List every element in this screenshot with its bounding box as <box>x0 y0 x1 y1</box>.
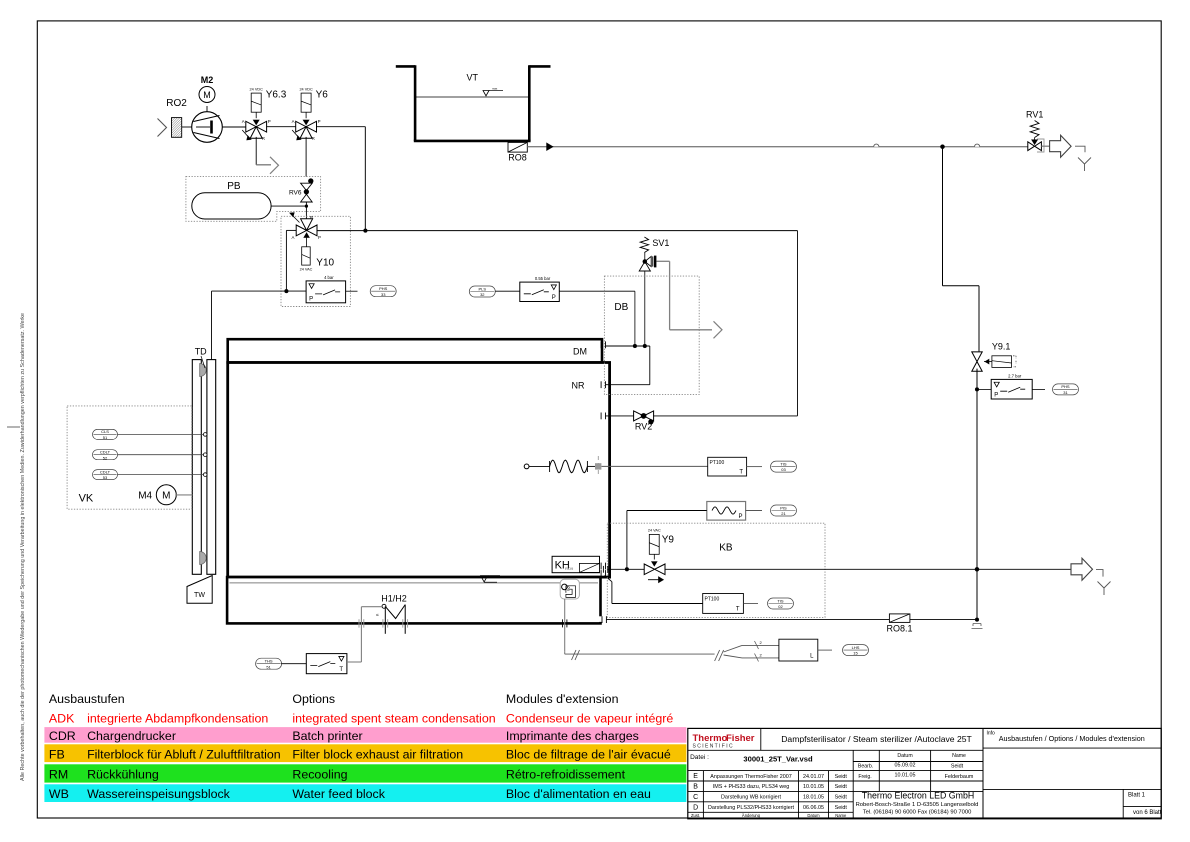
svg-text:P: P <box>738 514 742 520</box>
svg-text:DM: DM <box>573 347 587 357</box>
svg-text:TD: TD <box>195 347 207 357</box>
svg-text:VT: VT <box>466 73 478 83</box>
svg-text:51: 51 <box>103 435 108 440</box>
svg-text:Tel. (06184) 90 6000 Fax: Tel. (06184) 90 6000 Fax (06184) 90 7000 <box>863 809 972 815</box>
svg-text:Chargendrucker: Chargendrucker <box>87 729 176 743</box>
svg-text:integrierte Abdampfkondensatio: integrierte Abdampfkondensation <box>87 711 268 725</box>
svg-text:05.09.02: 05.09.02 <box>895 763 916 769</box>
svg-text:10.01.05: 10.01.05 <box>895 773 916 779</box>
svg-text:30001_25T_Var.vsd: 30001_25T_Var.vsd <box>743 755 813 764</box>
svg-text:06.06.05: 06.06.05 <box>803 805 824 811</box>
svg-text:CLS: CLS <box>101 429 109 434</box>
svg-text:Y9: Y9 <box>662 535 675 546</box>
svg-text:Y9.1: Y9.1 <box>992 342 1011 352</box>
svg-text:S C I E N T I F I C: S C I E N T I F I C <box>693 744 733 750</box>
svg-text:R: R <box>310 215 313 220</box>
svg-text:PT100: PT100 <box>710 460 725 466</box>
svg-text:T: T <box>739 470 743 476</box>
svg-text:Batch printer: Batch printer <box>292 729 362 743</box>
svg-text:RV6: RV6 <box>289 190 302 197</box>
svg-text:Filter block exhaust air filtr: Filter block exhaust air filtration <box>292 747 463 761</box>
svg-text:CDR: CDR <box>49 729 76 743</box>
svg-text:4 bar: 4 bar <box>324 275 334 280</box>
svg-text:IMS + PHS33 dazu, PLS34 weg: IMS + PHS33 dazu, PLS34 weg <box>713 784 790 790</box>
svg-text:VK: VK <box>79 493 94 505</box>
svg-text:P: P <box>268 119 271 124</box>
svg-text:D: D <box>693 804 698 811</box>
svg-text:24 VDC: 24 VDC <box>250 88 264 92</box>
svg-text:Ausbaustufen: Ausbaustufen <box>49 692 125 706</box>
svg-text:Seidt: Seidt <box>835 795 848 801</box>
svg-text:M: M <box>203 90 211 100</box>
svg-text:33: 33 <box>381 292 386 297</box>
svg-text:RO8: RO8 <box>508 153 527 163</box>
svg-text:T: T <box>736 607 740 613</box>
svg-text:Seidt: Seidt <box>835 774 848 780</box>
svg-text:PB: PB <box>227 181 241 192</box>
svg-text:C: C <box>693 794 698 801</box>
svg-text:Darstellung PLS32/PHS33 korri: Darstellung PLS32/PHS33 korrigiert <box>708 805 794 811</box>
svg-text:Datum: Datum <box>807 813 820 818</box>
svg-text:15: 15 <box>853 651 858 656</box>
svg-text:A: A <box>242 119 245 124</box>
svg-text:52: 52 <box>103 455 108 460</box>
svg-text:Imprimante des charges: Imprimante des charges <box>506 729 639 743</box>
svg-text:10.01.05: 10.01.05 <box>803 784 824 790</box>
svg-text:THS: THS <box>265 659 273 664</box>
svg-text:Seidt: Seidt <box>835 805 848 811</box>
svg-text:M: M <box>162 491 170 502</box>
svg-text:21: 21 <box>781 511 786 516</box>
svg-text:E: E <box>693 773 698 780</box>
svg-text:H1/H2: H1/H2 <box>381 594 407 604</box>
svg-text:CDLT: CDLT <box>100 469 111 474</box>
svg-text:PT100: PT100 <box>705 597 720 603</box>
svg-text:P: P <box>318 119 321 124</box>
svg-text:Rückkühlung: Rückkühlung <box>87 767 159 781</box>
svg-text:Anpassungen ThermoFisher 2007: Anpassungen ThermoFisher 2007 <box>710 774 791 780</box>
svg-text:Y10: Y10 <box>316 258 334 269</box>
svg-text:Thermo: Thermo <box>693 733 728 744</box>
svg-text:max: max <box>492 87 498 91</box>
svg-text:P: P <box>318 235 321 240</box>
svg-text:Zust.: Zust. <box>691 813 700 818</box>
svg-text:2.7 bar: 2.7 bar <box>1008 373 1022 378</box>
svg-text:M2: M2 <box>201 75 214 85</box>
svg-text:RV1: RV1 <box>1026 110 1043 120</box>
svg-text:24 VDC: 24 VDC <box>299 88 313 92</box>
svg-text:von 6 Blatt: von 6 Blatt <box>1133 810 1162 816</box>
svg-text:Robert-Bosch-Straße 1 D-6350: Robert-Bosch-Straße 1 D-63505 Langenselb… <box>856 802 979 808</box>
svg-text:24 VAC: 24 VAC <box>648 529 661 533</box>
svg-text:Rétro-refroidissement: Rétro-refroidissement <box>506 767 626 781</box>
svg-text:Datei :: Datei : <box>690 754 709 761</box>
svg-text:Filterblock für Abluft / Zuluf: Filterblock für Abluft / Zuluftfiltratio… <box>87 747 281 761</box>
svg-text:«: « <box>376 613 379 619</box>
svg-text:Freig.: Freig. <box>858 774 871 780</box>
svg-text:31: 31 <box>1063 390 1068 395</box>
svg-text:Datum: Datum <box>897 753 912 759</box>
svg-text:T: T <box>339 667 343 673</box>
svg-text:Bearb.: Bearb. <box>858 764 873 770</box>
svg-text:B: B <box>693 784 698 791</box>
svg-text:RM: RM <box>49 767 68 781</box>
svg-text:Info: Info <box>987 731 996 737</box>
svg-text:P: P <box>994 393 998 399</box>
svg-text:02: 02 <box>778 604 783 609</box>
svg-text:Modules d'extension: Modules d'extension <box>506 692 619 706</box>
svg-text:32: 32 <box>480 292 485 297</box>
svg-text:Dampfsterilisator / Steam ster: Dampfsterilisator / Steam sterilizer /Au… <box>781 734 972 744</box>
svg-text:RO2: RO2 <box>166 98 187 109</box>
svg-text:Seidt: Seidt <box>835 784 848 790</box>
svg-text:Name: Name <box>952 753 966 759</box>
svg-text:FB: FB <box>49 747 65 761</box>
svg-text:Ausbaustufen / Options / Modul: Ausbaustufen / Options / Modules d'exten… <box>999 734 1145 743</box>
svg-text:PHS: PHS <box>1061 384 1070 389</box>
svg-text:Y6.3: Y6.3 <box>266 90 287 101</box>
svg-text:LHS: LHS <box>852 645 860 650</box>
svg-text:DB: DB <box>614 302 628 313</box>
svg-text:0.55 bar: 0.55 bar <box>535 276 551 281</box>
svg-text:SV1: SV1 <box>652 238 669 248</box>
svg-text:53: 53 <box>103 475 108 480</box>
svg-text:P: P <box>552 295 556 301</box>
svg-text:Y6: Y6 <box>316 90 329 101</box>
svg-text:RO9: RO9 <box>565 566 574 571</box>
svg-text:RO8.1: RO8.1 <box>886 624 912 634</box>
svg-text:Thermo Electron LED GmbH: Thermo Electron LED GmbH <box>862 790 974 800</box>
svg-text:RV2: RV2 <box>635 422 652 432</box>
svg-text:M4: M4 <box>138 490 152 501</box>
svg-text:TIS: TIS <box>780 461 787 466</box>
svg-text:NR: NR <box>572 381 585 391</box>
svg-text:A: A <box>292 119 295 124</box>
svg-text:Bloc d'alimentation en eau: Bloc d'alimentation en eau <box>506 787 651 801</box>
svg-text:A: A <box>292 235 295 240</box>
svg-text:Options: Options <box>292 692 335 706</box>
svg-text:integrated spent steam condens: integrated spent steam condensation <box>292 711 495 725</box>
svg-text:03: 03 <box>781 467 786 472</box>
svg-text:P: P <box>309 296 313 302</box>
svg-text:Bloc de filtrage de l'air évac: Bloc de filtrage de l'air évacué <box>506 747 671 761</box>
svg-text:Felderbaum: Felderbaum <box>945 774 974 780</box>
svg-text:Wassereinspeisungsblock: Wassereinspeisungsblock <box>87 787 231 801</box>
svg-text:Blatt 1: Blatt 1 <box>1128 793 1146 799</box>
svg-text:Fisher: Fisher <box>726 733 755 744</box>
svg-text:24.01.07: 24.01.07 <box>803 774 824 780</box>
svg-text:KB: KB <box>719 543 733 554</box>
svg-text:R: R <box>262 136 265 141</box>
svg-text:51: 51 <box>266 664 271 669</box>
svg-text:PHS: PHS <box>379 286 388 291</box>
svg-text:Darstellung WB korrigiert: Darstellung WB korrigiert <box>721 795 781 801</box>
svg-text:Condenseur de vapeur intégré: Condenseur de vapeur intégré <box>506 711 673 725</box>
svg-text:Water feed block: Water feed block <box>292 787 385 801</box>
svg-text:Alle Rechte vorbehalten, auch: Alle Rechte vorbehalten, auch die der ph… <box>20 313 26 781</box>
svg-text:Recooling: Recooling <box>292 767 347 781</box>
svg-text:WB: WB <box>49 787 69 801</box>
svg-text:24 VAC: 24 VAC <box>300 268 313 272</box>
svg-text:ADK: ADK <box>49 711 75 725</box>
svg-text:PLS: PLS <box>479 286 487 291</box>
svg-text:TIS: TIS <box>777 598 784 603</box>
svg-text:Änderung: Änderung <box>742 813 761 818</box>
svg-text:PIS: PIS <box>780 505 787 510</box>
svg-text:TW: TW <box>194 592 205 599</box>
svg-text:Seidt: Seidt <box>951 764 964 770</box>
svg-text:Name: Name <box>835 813 847 818</box>
svg-text:CDLT: CDLT <box>100 450 111 455</box>
svg-text:R: R <box>312 136 315 141</box>
svg-text:18.01.05: 18.01.05 <box>803 795 824 801</box>
